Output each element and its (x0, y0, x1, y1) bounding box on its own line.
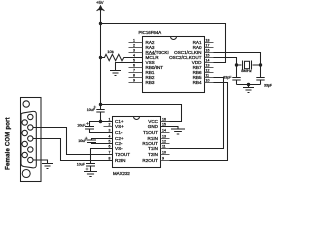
node: resistor junction (99, 56, 102, 59)
svg-text:13: 13 (206, 63, 210, 67)
MAX pin 16 VCC (148, 117, 169, 124)
svg-text:4: 4 (133, 53, 135, 57)
svg-text:9: 9 (133, 78, 135, 82)
svg-text:16: 16 (162, 117, 166, 121)
svg-text:R2IN: R2IN (115, 158, 125, 163)
wire: +5V rail to MAX VCC (101, 105, 182, 122)
node: crystal left junction (235, 63, 238, 66)
svg-text:17: 17 (206, 43, 210, 47)
capacitor C4 10uF VS- to ground (77, 149, 113, 172)
MAX pin 3 C1- (104, 128, 123, 135)
svg-text:6: 6 (133, 63, 135, 67)
svg-text:10: 10 (206, 78, 210, 82)
svg-text:13: 13 (162, 134, 166, 138)
pin 15 OSC2/CLKOUT (169, 53, 213, 60)
capacitor C3 10uF bypass (87, 105, 105, 122)
DB9 bottom mounting hole (22, 170, 30, 178)
svg-text:C1-: C1- (115, 130, 123, 135)
svg-text:12: 12 (206, 68, 210, 72)
pin 14 VDD (192, 58, 214, 65)
svg-text:T2IN: T2IN (148, 152, 158, 157)
svg-text:8MHz: 8MHz (241, 68, 251, 73)
svg-text:5: 5 (133, 58, 135, 62)
MAX pin 14 T1OUT (143, 128, 170, 135)
pin 1 RA2 (129, 38, 155, 45)
svg-text:14: 14 (162, 128, 166, 132)
svg-text:12: 12 (162, 139, 166, 143)
ground C4 (84, 172, 97, 177)
DB9 pin 3 (28, 136, 33, 141)
capacitor C1 10uF pins 1-3 (77, 122, 112, 133)
svg-text:14: 14 (206, 58, 210, 62)
svg-text:10uF: 10uF (87, 108, 96, 112)
MAX pin 7 T2OUT (104, 150, 131, 157)
pin 17 RA0 (193, 43, 214, 50)
IC U1 PIC16F84A body (139, 30, 205, 93)
MAX pin 6 VS- (104, 144, 124, 151)
pin 16 OSC1/CLKIN (174, 48, 213, 55)
svg-text:2: 2 (133, 43, 135, 47)
svg-text:T2OUT: T2OUT (115, 152, 130, 157)
svg-text:PIC16F84A: PIC16F84A (139, 30, 162, 35)
pin 18 RA1 (193, 38, 214, 45)
svg-text:4: 4 (109, 134, 111, 138)
capacitor C6 33pF right (256, 65, 273, 87)
node: top rail junction (99, 22, 102, 25)
ground crystal (248, 85, 250, 88)
crystal X1 8MHz (237, 61, 261, 73)
DB9 pin 7 (22, 130, 27, 135)
svg-text:8: 8 (133, 73, 135, 77)
pin 8 RB2 (129, 73, 155, 80)
wire: MAX GND to ground (161, 127, 179, 129)
svg-text:33pF: 33pF (223, 76, 232, 80)
MAX pin 9 R2OUT (142, 156, 169, 163)
MAX pin 15 GND (148, 122, 170, 129)
svg-text:RB4: RB4 (193, 80, 202, 85)
svg-text:6: 6 (109, 144, 111, 148)
wire: DB9 shell to ground (33, 160, 48, 163)
svg-text:GND: GND (148, 124, 159, 129)
wire: VSS to ground (116, 63, 143, 71)
svg-text:2: 2 (109, 122, 111, 126)
capacitor C2 10uF pins 4-5 (78, 137, 112, 144)
svg-text:10uF: 10uF (77, 124, 86, 128)
MAX pin 8 R2IN (104, 156, 126, 163)
pin 2 RA3 (129, 43, 155, 50)
svg-text:VS+: VS+ (115, 124, 124, 129)
DB9 top mounting hole (23, 101, 29, 107)
svg-text:1: 1 (133, 38, 135, 42)
MAX pin 11 T1IN (148, 144, 169, 151)
MAX pin 2 VS+ (104, 122, 125, 129)
svg-text:3: 3 (133, 48, 135, 52)
svg-text:8: 8 (109, 156, 111, 160)
svg-text:1: 1 (109, 117, 111, 121)
pin 6 RB0/INT (129, 63, 164, 70)
MAX pin 1 C1+ (104, 117, 124, 124)
wire: top rail across to VDD drop (101, 24, 226, 63)
wire: cap bottom rail (237, 84, 261, 86)
pin 7 RB1 (129, 68, 155, 75)
+5V power symbol (96, 0, 104, 23)
node: rail junction (99, 103, 102, 106)
svg-text:T1IN: T1IN (148, 146, 158, 151)
DB9 pin 8 (22, 141, 27, 146)
pin 10 RB4 (193, 78, 214, 85)
svg-text:7: 7 (133, 68, 135, 72)
wire: RB4 to MAX R2OUT (170, 83, 228, 161)
svg-text:T1OUT: T1OUT (143, 130, 158, 135)
MAX pin 5 C2- (104, 139, 123, 146)
svg-text:11: 11 (162, 144, 166, 148)
svg-text:10: 10 (162, 150, 166, 154)
svg-text:9: 9 (162, 156, 164, 160)
svg-text:10uF: 10uF (77, 162, 86, 166)
DB9 pin 4 (28, 147, 33, 152)
svg-text:16: 16 (206, 48, 210, 52)
wire: DB9 pin to MAX T2OUT (33, 128, 113, 155)
wire: main +5V vertical (100, 24, 102, 105)
svg-text:MAX232: MAX232 (113, 171, 130, 176)
svg-text:7: 7 (109, 150, 111, 154)
DB9 pin 9 (22, 152, 27, 157)
DB9 pin 1 (28, 114, 33, 119)
wire: OSC2 to crystal left (214, 58, 237, 66)
svg-text:15: 15 (162, 122, 166, 126)
pin 13 RB7 (193, 63, 214, 70)
pin 9 RB3 (129, 78, 155, 85)
svg-text:3: 3 (109, 128, 111, 132)
svg-text:15: 15 (206, 53, 210, 57)
svg-text:R2OUT: R2OUT (142, 158, 158, 163)
svg-text:Female COM port: Female COM port (6, 117, 12, 170)
ground MAX GND (171, 129, 185, 134)
DB9 D-shell (21, 111, 36, 167)
pin 3 RA4/T0CKI (129, 48, 169, 55)
pin 11 RB5 (193, 73, 214, 80)
ground DB9 shell (42, 164, 53, 169)
svg-text:RB3: RB3 (146, 80, 155, 85)
MAX pin 12 R1OUT (142, 139, 169, 146)
pin 4 MCLR (133, 53, 159, 60)
IC U2 MAX232 body (113, 117, 161, 177)
node: crystal right junction (259, 63, 262, 66)
MAX pin 10 T2IN (148, 150, 169, 157)
svg-text:11: 11 (206, 73, 210, 77)
svg-text:+5V: +5V (96, 0, 104, 5)
svg-text:5: 5 (109, 139, 111, 143)
MAX pin 13 R1IN (148, 134, 170, 141)
svg-text:18: 18 (206, 38, 210, 42)
node: rail center (247, 83, 250, 86)
DB9 pin 2 (28, 125, 33, 130)
wire: RB5 to MAX T1IN (170, 78, 224, 149)
DB9 pin 5 (28, 157, 33, 162)
svg-text:10k: 10k (107, 49, 113, 54)
pin 12 RB6 (193, 68, 214, 75)
DB9 pin 6 (22, 120, 27, 125)
capacitor C5 33pF left (223, 65, 240, 85)
MAX pin 4 C2+ (104, 134, 124, 141)
wire: DB9 pin to MAX R2IN (33, 139, 113, 161)
svg-text:33pF: 33pF (264, 83, 272, 87)
connector J1 DB9 female outer frame (21, 98, 42, 182)
node: cap joins pin1 wire (99, 120, 102, 123)
resistor R1 10k (101, 49, 143, 61)
svg-text:VS-: VS- (115, 146, 123, 151)
ground PIC VSS (110, 71, 121, 76)
pin 5 VSS (133, 58, 155, 65)
wire: OSC1 to crystal right (214, 53, 261, 66)
